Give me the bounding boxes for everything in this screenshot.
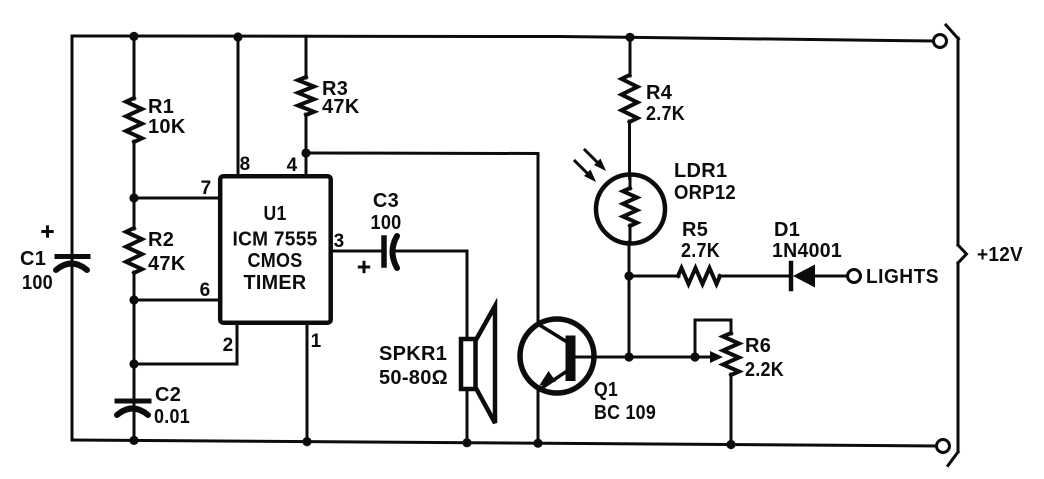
svg-text:R6: R6 [745, 335, 771, 357]
wire: pin 7 [134, 197, 218, 200]
label C3 plus polarity [358, 261, 370, 273]
label R5 [682, 219, 708, 241]
svg-text:C3: C3 [373, 190, 399, 212]
wire: C3 to speaker [394, 251, 467, 339]
svg-text:TIMER: TIMER [244, 272, 307, 294]
wire: R2 to C2 [133, 272, 136, 440]
label R3 [322, 78, 348, 100]
node: junction C2 / bottom rail [129, 436, 138, 445]
label +12V [977, 244, 1023, 266]
label U1 part ICM 7555 [233, 229, 318, 251]
wire: pin 1 to bottom rail [306, 325, 309, 442]
svg-text:D1: D1 [774, 219, 800, 241]
capacitor C3 [384, 236, 397, 268]
node: junction R3/pin4 [301, 148, 310, 157]
label C2 [155, 384, 181, 406]
label C3 [373, 190, 399, 212]
wire: right rail upper break tick [946, 25, 959, 39]
capacitor C2 [117, 401, 149, 415]
label C3 value 100 [371, 212, 402, 234]
pin label 7 [201, 178, 212, 199]
LDR1 light arrow 1 [585, 150, 606, 171]
svg-text:LIGHTS: LIGHTS [866, 266, 939, 288]
node: junction top rail / R4 [625, 33, 634, 42]
label U1 TIMER [244, 272, 307, 294]
wire: bottom ground rail [72, 440, 937, 446]
label R1 [148, 96, 174, 118]
label R4 value 2.7K [646, 103, 685, 125]
node: junction LDR1 / R5 [624, 271, 633, 280]
wire: R3 branch from top rail [305, 36, 308, 78]
wire: pin 3 output [331, 250, 380, 253]
wire: right rail lower break tick [948, 452, 958, 466]
wire: pin 2 [134, 325, 237, 364]
terminal: top right supply connection [934, 35, 947, 48]
wire: D1 to LIGHTS terminal [814, 275, 848, 278]
pin label 2 [223, 335, 234, 356]
label U1 [264, 203, 287, 225]
wire: pin 6 [134, 299, 218, 302]
svg-text:C2: C2 [155, 384, 181, 406]
label Q1 part BC 109 [594, 402, 656, 424]
svg-text:2.7K: 2.7K [681, 240, 720, 262]
pin label 8 [240, 154, 251, 175]
svg-text:0.01: 0.01 [154, 406, 190, 428]
speaker SPKR1 [461, 306, 495, 423]
label C1 value 100 [22, 272, 53, 294]
label LIGHTS [866, 266, 939, 288]
label C1 [20, 248, 46, 270]
node: junction Q1 base / LDR column [624, 352, 633, 361]
wire: R3 to pin 4 [305, 114, 308, 176]
resistor R1 [126, 98, 142, 142]
resistor R5 [678, 268, 720, 284]
label R3 value 47K [322, 96, 360, 118]
wire: R5 to D1 [719, 275, 789, 278]
svg-text:50-80Ω: 50-80Ω [379, 367, 448, 389]
svg-text:7: 7 [201, 178, 212, 199]
potentiometer R6 [723, 333, 739, 375]
svg-text:Q1: Q1 [594, 379, 618, 401]
op-amp U1 timer box [220, 176, 331, 323]
node: junction R6 / bottom rail [726, 440, 735, 449]
label R6 value 2.2K [745, 359, 784, 381]
potentiometer R6 wiper arrow [695, 351, 723, 363]
label LDR1 part ORP12 [674, 182, 736, 204]
label R4 [646, 82, 673, 104]
node: junction speaker / bottom rail [462, 438, 471, 447]
label C1 plus polarity [41, 225, 53, 237]
diode D1 [791, 263, 815, 289]
wire: R4 branch from top rail [629, 37, 632, 76]
svg-text:SPKR1: SPKR1 [379, 343, 447, 365]
svg-text:1N4001: 1N4001 [772, 240, 842, 262]
wire: Q1 base [575, 356, 695, 359]
svg-text:10K: 10K [148, 116, 186, 138]
resistor R2 [126, 228, 142, 273]
label LDR1 [674, 160, 727, 182]
capacitor C1 [56, 257, 88, 271]
svg-text:ICM 7555: ICM 7555 [233, 229, 318, 251]
wire: LDR1 to Q1 base node [628, 242, 631, 357]
label Q1 [594, 379, 618, 401]
resistor R3 [298, 77, 314, 115]
label R5 value 2.7K [681, 240, 720, 262]
label R2 [148, 229, 174, 251]
node: junction pin1 / bottom rail [302, 437, 311, 446]
svg-text:R1: R1 [148, 96, 174, 118]
svg-text:1: 1 [311, 331, 322, 352]
svg-text:R2: R2 [148, 229, 174, 251]
node: +12V notch [958, 245, 967, 263]
wire: pin 8 to top rail [237, 37, 240, 176]
label SPKR1 [379, 343, 447, 365]
node: junction pin2 branch [129, 359, 138, 368]
label SPKR1 value 50-80ohm [379, 367, 448, 389]
svg-text:2: 2 [223, 335, 234, 356]
wire: pin 4 node to Q1 collector [306, 153, 538, 324]
node: junction Q1 emitter / bottom rail [533, 439, 542, 448]
label U1 CMOS [248, 250, 303, 272]
pin label 3 [334, 231, 345, 252]
svg-text:+12V: +12V [977, 244, 1023, 266]
svg-text:47K: 47K [148, 253, 186, 275]
resistor R4 [622, 75, 638, 122]
svg-text:C1: C1 [20, 248, 46, 270]
node: junction R1/R2/pin7 [129, 193, 138, 202]
terminal: LIGHTS connection [848, 270, 861, 283]
wire: Q1 emitter to bottom rail [537, 388, 540, 443]
svg-text:ORP12: ORP12 [674, 182, 736, 204]
svg-text:8: 8 [240, 154, 251, 175]
svg-text:R5: R5 [682, 219, 708, 241]
wire: R6 wiper loop [695, 320, 731, 356]
svg-text:R4: R4 [646, 82, 673, 104]
label R2 value 47K [148, 253, 186, 275]
node: junction top rail / pin 8 [233, 32, 242, 41]
svg-text:100: 100 [22, 272, 53, 294]
wire: speaker to bottom rail [466, 389, 469, 443]
label D1 part 1N4001 [772, 240, 842, 262]
pin label 6 [200, 280, 211, 301]
label R6 [745, 335, 771, 357]
pin label 1 [311, 331, 322, 352]
svg-text:2.7K: 2.7K [646, 103, 685, 125]
photoresistor LDR1 [596, 175, 665, 244]
pin label 4 [287, 155, 298, 176]
label D1 [774, 219, 800, 241]
wire: R5 left lead [629, 275, 679, 278]
svg-text:6: 6 [200, 280, 211, 301]
LDR1 light arrow 2 [575, 161, 596, 182]
wire: R1 branch from top rail [133, 36, 136, 99]
wire: R1 to R2 [133, 141, 136, 229]
svg-text:2.2K: 2.2K [745, 359, 784, 381]
svg-text:100: 100 [371, 212, 402, 234]
svg-text:BC 109: BC 109 [594, 402, 656, 424]
transistor Q1 [520, 319, 594, 393]
wire: R6 to bottom rail [730, 374, 733, 445]
wire: right rail upper segment [957, 38, 960, 245]
label C2 value 0.01 [154, 406, 190, 428]
wire: R4 to LDR1 [628, 121, 631, 178]
wire: left rail [71, 36, 74, 440]
svg-text:CMOS: CMOS [248, 250, 303, 272]
label R1 value 10K [148, 116, 186, 138]
node: junction R2/pin6 [129, 295, 138, 304]
terminal: bottom right supply connection [937, 440, 950, 453]
node: junction top rail / R1 [129, 32, 138, 41]
svg-text:LDR1: LDR1 [674, 160, 727, 182]
svg-text:4: 4 [287, 155, 298, 176]
svg-text:3: 3 [334, 231, 345, 252]
wire: top +12V rail [73, 36, 934, 41]
svg-text:47K: 47K [322, 96, 360, 118]
svg-text:U1: U1 [264, 203, 287, 225]
wire: right rail lower segment [957, 263, 960, 452]
node: junction Q1 base / R6 wiper [690, 352, 699, 361]
